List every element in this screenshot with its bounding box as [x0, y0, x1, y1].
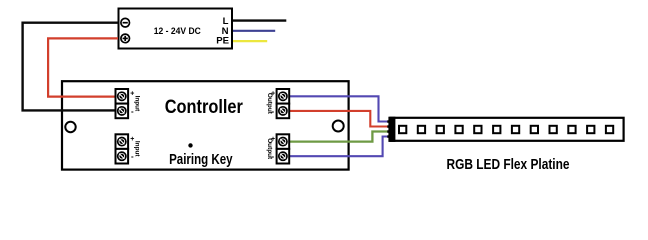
svg-text:Output: Output: [266, 93, 273, 115]
input terminal block 1: [116, 89, 129, 118]
svg-text:Pairing Key: Pairing Key: [169, 152, 233, 168]
connector pin 1: [387, 120, 390, 123]
wire yellow PE-out from power supply: [231, 40, 267, 42]
output 2 screw -: [279, 152, 287, 160]
pairing key indicator dot: [188, 143, 192, 147]
input terminal block 2: [116, 134, 129, 163]
connector pin 2: [387, 125, 390, 128]
output 2 screw +: [279, 138, 287, 146]
power supply plus terminal screw: [121, 34, 130, 43]
controller mounting hole left: [65, 122, 75, 132]
input 1 screw -: [118, 107, 126, 115]
LED strip connector bar: [390, 117, 396, 142]
output 1 screw +: [279, 92, 287, 100]
svg-text:RGB LED Flex Platine: RGB LED Flex Platine: [447, 156, 570, 173]
wire purple output1 + to LED strip pin 1: [289, 96, 390, 121]
wire red output1 - to LED strip pin 2: [289, 111, 390, 127]
svg-text:Input: Input: [133, 96, 140, 112]
power supply minus terminal screw: [121, 18, 130, 27]
controller mounting hole right: [333, 121, 344, 132]
LED strip body: [390, 118, 624, 141]
wire black L-out from power supply: [231, 19, 286, 21]
wire red DC positive: power supply to controller input +: [48, 38, 118, 96]
input 1 screw +: [118, 92, 126, 100]
input 2 screw +: [118, 138, 126, 146]
output 1 screw -: [279, 107, 287, 115]
LED chips: [399, 126, 613, 133]
output terminal block 1: [277, 89, 290, 118]
wire green output2 + to LED strip pin 3: [289, 132, 390, 142]
svg-text:PE: PE: [216, 36, 229, 47]
svg-text:Output: Output: [266, 138, 273, 160]
wire blue N-out from power supply: [231, 30, 275, 32]
controller box: [62, 81, 349, 169]
power supply box 12-24V DC: [119, 9, 233, 49]
svg-text:Controller: Controller: [165, 96, 244, 118]
connector pin 3: [387, 130, 390, 133]
input 2 screw -: [118, 152, 126, 160]
svg-text:Input: Input: [133, 141, 140, 157]
wire black DC negative: power supply to controller input -: [23, 23, 118, 111]
connector pin 4: [387, 135, 390, 138]
wire purple output2 - to LED strip pin 4: [289, 137, 390, 157]
svg-text:12 - 24V DC: 12 - 24V DC: [154, 26, 201, 37]
output terminal block 2: [277, 134, 290, 163]
